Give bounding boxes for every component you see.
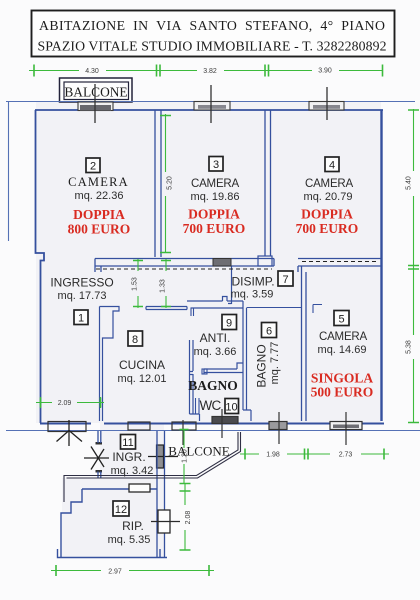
svg-text:mq. 14.69: mq. 14.69 — [318, 344, 367, 356]
title box — [32, 11, 395, 57]
svg-text:CAMERA: CAMERA — [191, 178, 240, 190]
svg-text:3.82: 3.82 — [203, 68, 217, 75]
svg-text:1.33: 1.33 — [160, 279, 167, 293]
ingr labels — [111, 435, 154, 478]
svg-text:ABITAZIONE IN VIA SANTO ST: ABITAZIONE IN VIA SANTO STEFANO, 4° PIAN… — [39, 18, 385, 33]
interior tint — [36, 102, 381, 557]
cucina/bagno wall — [190, 340, 200, 421]
svg-text:8: 8 — [132, 334, 138, 346]
svg-text:mq. 7.77: mq. 7.77 — [269, 342, 281, 385]
anti/bagno6 wall — [243, 301, 251, 421]
wall rooms 3/4 — [265, 110, 271, 256]
svg-text:mq. 12.01: mq. 12.01 — [118, 373, 167, 385]
windows on top wall — [78, 102, 344, 111]
svg-text:ANTI.: ANTI. — [200, 331, 231, 345]
door X symbol (ingr left) — [84, 442, 109, 473]
anti labels — [194, 315, 237, 359]
svg-text:BAGNO: BAGNO — [255, 344, 269, 387]
ingr room walls — [98, 431, 165, 557]
bagno6 labels — [255, 323, 282, 388]
svg-text:4: 4 — [329, 160, 335, 172]
walls — [35, 110, 384, 424]
svg-text:mq. 3.42: mq. 3.42 — [111, 465, 154, 477]
corridor wall to anti — [187, 297, 243, 309]
disimp top left walls — [228, 266, 232, 304]
svg-text:700 EURO: 700 EURO — [183, 221, 246, 236]
camera5 door jamb — [313, 305, 322, 314]
svg-text:mq. 3.59: mq. 3.59 — [231, 289, 274, 301]
svg-text:3.90: 3.90 — [318, 68, 332, 75]
green dimension 2.08 (right of rip) — [180, 483, 191, 550]
rip room outline — [58, 489, 168, 558]
wc walls — [196, 398, 200, 414]
svg-text:CAMERA: CAMERA — [305, 178, 354, 190]
svg-text:DOPPIA: DOPPIA — [73, 207, 125, 222]
svg-text:mq. 17.73: mq. 17.73 — [58, 290, 107, 302]
windows on bottom wall — [48, 409, 362, 445]
top wall — [35, 109, 383, 111]
dashed opening lines — [96, 262, 378, 270]
svg-text:SINGOLA: SINGOLA — [311, 371, 374, 386]
svg-text:1.98: 1.98 — [266, 452, 280, 459]
svg-text:10: 10 — [225, 402, 237, 414]
green dimension 2.97 (bottom rip) — [51, 565, 214, 576]
green dimension 1.20 (balcone depth) — [180, 429, 189, 483]
svg-text:CUCINA: CUCINA — [119, 358, 165, 372]
svg-text:2: 2 — [90, 161, 96, 173]
ingresso/cucina wall — [100, 307, 120, 422]
svg-text:1: 1 — [78, 313, 84, 325]
svg-text:11: 11 — [122, 437, 133, 449]
rip labels — [108, 501, 151, 546]
balcone top box — [60, 78, 133, 102]
svg-text:5.20: 5.20 — [167, 176, 174, 190]
right wall — [380, 110, 382, 421]
ingresso labels — [50, 276, 113, 325]
svg-text:BALCONE: BALCONE — [64, 85, 127, 100]
svg-text:WC: WC — [200, 398, 222, 413]
top dimension line 4.30 / 3.82 / 3.90 — [29, 65, 383, 77]
rooms 2/3 bottom band — [95, 259, 274, 273]
window rect rooms 2/3 bottom band — [213, 259, 231, 267]
camera5 labels — [311, 311, 374, 400]
svg-text:SPAZIO VITALE STUDIO IMMOBILIA: SPAZIO VITALE STUDIO IMMOBILIARE - T. 32… — [38, 38, 387, 53]
svg-text:CAMERA: CAMERA — [68, 175, 129, 189]
svg-text:mq. 22.36: mq. 22.36 — [75, 190, 124, 202]
green dimensions 1.98 / 2.73 (bottom balcony) — [240, 449, 389, 460]
svg-text:CAMERA: CAMERA — [319, 331, 368, 343]
cucina top wall — [146, 307, 187, 310]
svg-text:RIP.: RIP. — [122, 519, 144, 533]
green dimension 5.20 (left of room 3) — [160, 114, 171, 253]
svg-text:mq. 19.86: mq. 19.86 — [191, 191, 240, 203]
thin outer building lines — [6, 102, 420, 431]
svg-text:12: 12 — [115, 504, 127, 516]
door (ingr-balcone right) — [148, 445, 178, 468]
svg-text:7: 7 — [282, 274, 288, 286]
svg-text:5.40: 5.40 — [406, 176, 413, 190]
svg-text:DOPPIA: DOPPIA — [301, 207, 353, 222]
svg-text:BALCONE: BALCONE — [168, 444, 229, 459]
room 4 bottom band — [298, 259, 381, 273]
green dimensions 1.53 and 1.33 (corridor) — [133, 259, 171, 308]
balcone bottom outline — [64, 432, 241, 502]
svg-text:2.73: 2.73 — [339, 452, 353, 459]
svg-text:800 EURO: 800 EURO — [68, 222, 131, 237]
bagno6 top wall — [247, 307, 302, 309]
svg-text:DISIMP.: DISIMP. — [231, 275, 274, 289]
green dimension 2.09 (ingresso) — [36, 397, 104, 408]
svg-text:2.97: 2.97 — [108, 569, 122, 576]
svg-text:5: 5 — [338, 314, 344, 326]
room 2 labels — [68, 158, 131, 237]
svg-text:mq. 20.79: mq. 20.79 — [304, 191, 353, 203]
svg-text:1.53: 1.53 — [132, 277, 139, 291]
svg-text:DOPPIA: DOPPIA — [188, 207, 240, 222]
svg-text:2.09: 2.09 — [58, 400, 72, 407]
bottom wall — [40, 423, 384, 425]
svg-text:9: 9 — [226, 318, 232, 330]
svg-text:mq. 3.66: mq. 3.66 — [194, 346, 237, 358]
svg-text:500 EURO: 500 EURO — [311, 385, 374, 400]
svg-text:5.38: 5.38 — [406, 340, 413, 354]
rip windows — [129, 484, 180, 533]
svg-text:700 EURO: 700 EURO — [296, 221, 359, 236]
disimp labels — [231, 271, 293, 301]
wall rooms 2/3 — [155, 110, 161, 257]
svg-text:INGRESSO: INGRESSO — [50, 276, 113, 290]
svg-text:mq. 5.35: mq. 5.35 — [108, 534, 151, 546]
french window X symbol (cucina-balcone) — [57, 420, 83, 446]
cucina labels — [118, 331, 167, 385]
bagno6/camera5 wall — [302, 266, 307, 421]
svg-text:BAGNO: BAGNO — [188, 378, 238, 393]
green dimension 5.40 / 5.38 (right side) — [408, 109, 419, 423]
svg-text:2.08: 2.08 — [185, 511, 192, 525]
left wall with notch — [36, 110, 45, 423]
room 3 labels — [183, 157, 246, 237]
svg-text:INGR.: INGR. — [112, 450, 145, 464]
anti/bagno divider — [204, 363, 243, 374]
bagno/wc labels — [188, 378, 238, 414]
svg-text:4.30: 4.30 — [85, 68, 99, 75]
svg-text:6: 6 — [266, 326, 272, 338]
room 4 labels — [296, 157, 359, 236]
svg-text:3: 3 — [213, 159, 219, 171]
